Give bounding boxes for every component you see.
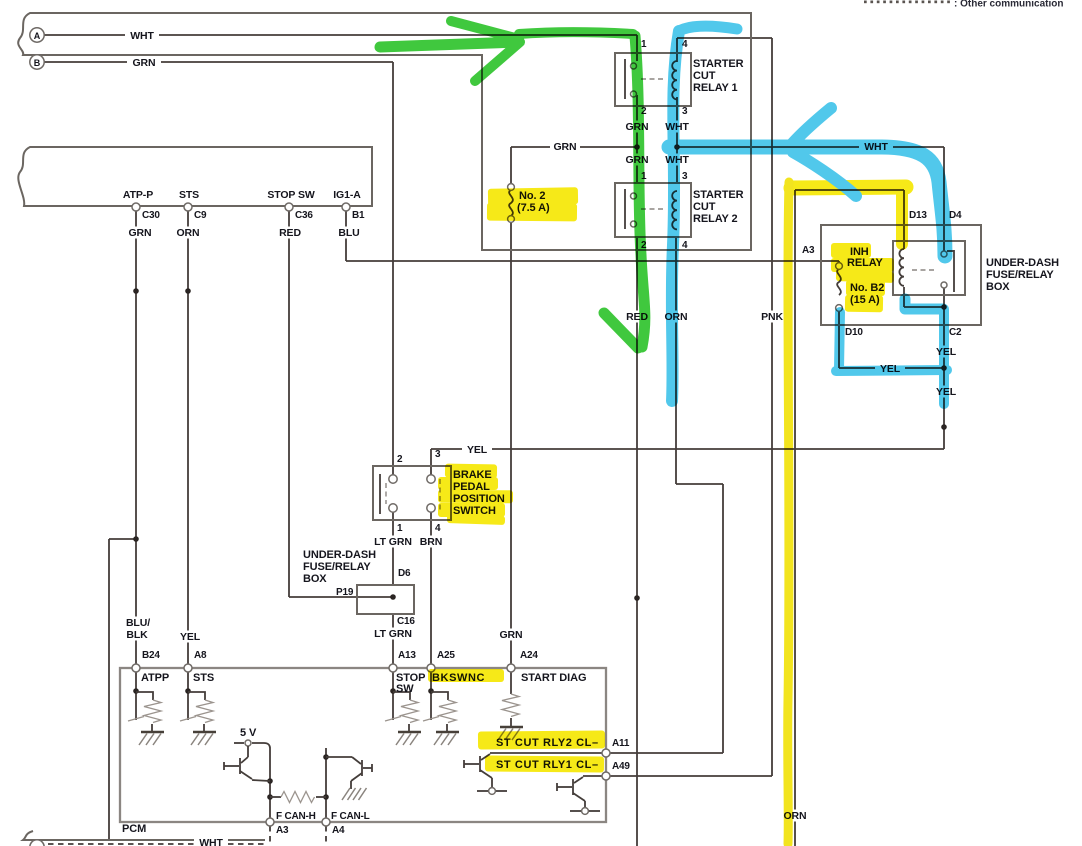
svg-text:LT GRN: LT GRN [374, 628, 412, 640]
svg-text:STARTER: STARTER [693, 189, 744, 201]
svg-text:UNDER-DASH: UNDER-DASH [303, 549, 376, 561]
svg-text:C2: C2 [949, 327, 962, 338]
svg-text:FUSE/RELAY: FUSE/RELAY [303, 561, 371, 573]
svg-text:CUT: CUT [693, 201, 716, 213]
svg-text:C16: C16 [397, 616, 415, 627]
svg-text:START DIAG: START DIAG [521, 672, 586, 684]
svg-text:PCM: PCM [122, 823, 146, 835]
svg-text:RED: RED [279, 227, 301, 239]
svg-text:WHT: WHT [130, 30, 154, 42]
svg-text:ORN: ORN [176, 227, 199, 239]
svg-text:GRN: GRN [132, 57, 155, 69]
svg-text:CUT: CUT [693, 70, 716, 82]
svg-text:P19: P19 [336, 587, 354, 598]
svg-text:3: 3 [682, 171, 688, 182]
svg-text:4: 4 [682, 240, 688, 251]
svg-text:B24: B24 [142, 650, 160, 661]
svg-text:2: 2 [397, 454, 403, 465]
svg-text:GRN: GRN [553, 141, 576, 153]
svg-text:B: B [34, 58, 41, 68]
svg-text:5 V: 5 V [240, 727, 257, 739]
svg-text:ATPP: ATPP [141, 672, 169, 684]
svg-text:YEL: YEL [467, 444, 488, 456]
svg-text:: Other communication: : Other communication [954, 0, 1063, 10]
svg-text:F CAN-H: F CAN-H [276, 811, 316, 822]
svg-text:1: 1 [397, 523, 403, 534]
svg-text:A3: A3 [276, 825, 289, 836]
svg-text:STOP SW: STOP SW [267, 189, 315, 201]
svg-text:STARTER: STARTER [693, 58, 744, 70]
svg-text:SW: SW [396, 683, 414, 695]
svg-text:A4: A4 [332, 825, 345, 836]
svg-text:A3: A3 [802, 245, 815, 256]
svg-text:A11: A11 [612, 738, 630, 749]
svg-text:RELAY 1: RELAY 1 [693, 82, 738, 94]
svg-text:BRN: BRN [420, 536, 442, 548]
svg-text:B1: B1 [352, 210, 365, 221]
svg-text:STS: STS [179, 189, 199, 201]
svg-text:A25: A25 [437, 650, 455, 661]
svg-text:YEL: YEL [180, 631, 201, 643]
svg-text:A24: A24 [520, 650, 538, 661]
svg-text:FUSE/RELAY: FUSE/RELAY [986, 269, 1054, 281]
svg-text:BLK: BLK [126, 629, 148, 641]
svg-text:A: A [34, 31, 41, 41]
svg-text:C30: C30 [142, 210, 160, 221]
svg-text:STS: STS [193, 672, 214, 684]
svg-text:UNDER-DASH: UNDER-DASH [986, 257, 1059, 269]
svg-text:RELAY 2: RELAY 2 [693, 213, 738, 225]
svg-text:BOX: BOX [986, 281, 1010, 293]
svg-text:C9: C9 [194, 210, 207, 221]
svg-text:D4: D4 [949, 210, 962, 221]
svg-text:ATP-P: ATP-P [123, 189, 153, 201]
svg-text:LT GRN: LT GRN [374, 536, 412, 548]
svg-text:4: 4 [435, 523, 441, 534]
svg-text:PNK: PNK [761, 311, 783, 323]
svg-text:BOX: BOX [303, 573, 327, 585]
svg-text:IG1-A: IG1-A [333, 189, 361, 201]
svg-text:BLU: BLU [338, 227, 359, 239]
svg-text:1: 1 [641, 39, 647, 50]
svg-text:GRN: GRN [499, 629, 522, 641]
svg-text:3: 3 [435, 449, 441, 460]
svg-text:A49: A49 [612, 761, 630, 772]
svg-text:F CAN-L: F CAN-L [331, 811, 370, 822]
svg-text:GRN: GRN [128, 227, 151, 239]
svg-text:D13: D13 [909, 210, 927, 221]
svg-text:A8: A8 [194, 650, 207, 661]
svg-text:A13: A13 [398, 650, 416, 661]
svg-text:BLU/: BLU/ [126, 617, 150, 629]
svg-text:3: 3 [682, 106, 688, 117]
svg-text:WHT: WHT [199, 837, 223, 846]
svg-text:D10: D10 [845, 327, 863, 338]
svg-text:D6: D6 [398, 568, 411, 579]
svg-text:C36: C36 [295, 210, 313, 221]
